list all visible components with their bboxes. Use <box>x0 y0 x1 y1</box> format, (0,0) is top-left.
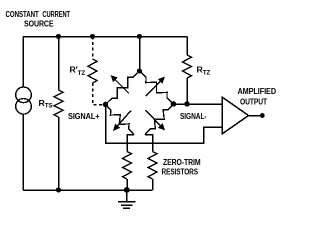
wire dashed R'TZ to signal+ node <box>93 83 103 105</box>
wire top supply rail <box>23 36 187 38</box>
arrow on bottom-left gauge (points down-left) <box>116 111 131 128</box>
svg-text:SIGNAL+: SIGNAL+ <box>68 111 100 121</box>
wire bottom-left bridge leg to zero-trim resistor 1 <box>127 135 134 152</box>
node signal- (bridge right) <box>171 101 177 107</box>
zero-trim resistor 2 <box>148 152 157 180</box>
svg-text:RESISTORS: RESISTORS <box>162 166 199 176</box>
wire rail to resistor RTS <box>58 37 60 91</box>
wire signal+ node down and across to op-amp non-inverting input <box>106 105 223 144</box>
bridge resistor top-right (strain gauge) <box>140 71 174 104</box>
node junction on rail above RTS <box>56 34 61 39</box>
resistor RTS <box>54 90 63 117</box>
arrow on top-right gauge (points up-right) <box>146 80 162 96</box>
wire RTS to bottom rail <box>58 117 60 190</box>
node output terminal <box>260 113 265 118</box>
current source (constant current source, two overlapping circles) <box>16 87 32 114</box>
bridge resistor bottom-left (strain gauge) <box>106 105 135 135</box>
node signal+ (bridge left) <box>103 102 109 108</box>
bridge resistor bottom-right (strain gauge) <box>145 104 174 135</box>
wire rail to bridge top node <box>139 37 141 72</box>
wire RTZ to signal- line <box>186 78 188 104</box>
wire left branch from rail to current source <box>22 37 24 88</box>
node bridge top <box>137 68 142 73</box>
arrow on bottom-right gauge (points down-right) <box>146 110 162 127</box>
node junction on rail above bridge <box>137 34 142 39</box>
ground symbol <box>118 190 136 208</box>
wire op-amp output <box>249 115 261 117</box>
svg-text:SOURCE: SOURCE <box>24 18 54 28</box>
wire zero-trim resistor 2 down to bottom rail <box>152 179 154 190</box>
zero-trim resistor 1 <box>123 152 132 180</box>
arrow on top-left gauge (points up-left) <box>114 79 129 94</box>
node junction on rail above R'TZ <box>90 34 95 39</box>
svg-text:SIGNAL-: SIGNAL- <box>180 111 207 121</box>
wire signal- to op-amp inverting input <box>174 103 223 105</box>
wire zero-trim resistor 1 to ground node <box>126 179 128 190</box>
node ground junction on bottom rail <box>124 187 130 193</box>
svg-text:OUTPUT: OUTPUT <box>240 96 268 106</box>
op-amp U1 <box>222 97 249 134</box>
resistor RTZ <box>183 55 192 78</box>
wire rail right corner to resistor RTZ <box>186 37 188 56</box>
node junction RTS at bottom rail <box>56 187 61 192</box>
node junction RTZ / signal- <box>184 101 190 107</box>
svg-text:AMPLIFIED: AMPLIFIED <box>238 86 277 96</box>
resistor R'TZ (optional, dashed connections) <box>88 59 97 83</box>
wire dashed rail to R'TZ <box>92 37 94 60</box>
bridge resistor top-left (strain gauge) <box>106 71 140 105</box>
wire bottom ground rail <box>23 189 153 191</box>
wire bottom-right bridge leg to zero-trim resistor 2 <box>145 135 153 152</box>
wire current source to bottom rail <box>22 114 24 190</box>
